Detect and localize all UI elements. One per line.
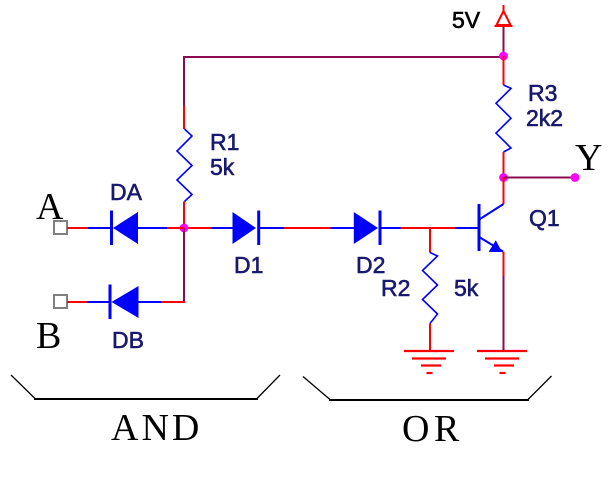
svg-text:2k2: 2k2 <box>526 105 563 131</box>
wire: 5V flag to rail node <box>503 27 505 56</box>
svg-text:5k: 5k <box>210 154 235 180</box>
svg-text:A: A <box>36 186 64 228</box>
wire: R3 top lead <box>503 56 505 85</box>
wire: B terminal red stub <box>67 301 87 303</box>
wire: A terminal red stub <box>67 227 88 229</box>
ground (emitter) <box>477 351 527 373</box>
transistor Q1 <box>479 204 504 252</box>
wire: output to Y <box>504 177 576 179</box>
svg-text:Y: Y <box>575 137 602 179</box>
svg-text:AND: AND <box>111 407 202 449</box>
wire: R2 bottom lead <box>429 324 431 352</box>
ground (R2) <box>404 351 454 373</box>
svg-text:OR: OR <box>402 408 464 450</box>
wire: R1 upper red lead <box>183 106 185 129</box>
wire: top rail horizontal (R1 top to 5V node) <box>184 57 504 106</box>
wire: collector lead <box>503 178 505 205</box>
node: output terminal Y <box>571 173 580 182</box>
resistor R3 <box>496 85 511 152</box>
svg-text:Q1: Q1 <box>529 205 560 231</box>
svg-text:D1: D1 <box>234 252 263 278</box>
wire: DA to AND node red <box>167 227 184 229</box>
node: 5V rail junction <box>499 52 508 61</box>
input terminal B <box>54 295 67 308</box>
wire: R3 bottom lead <box>503 152 505 177</box>
wire: R2 top lead <box>429 228 431 253</box>
wire: emitter lead red <box>503 252 505 277</box>
svg-text:5k: 5k <box>454 275 479 301</box>
resistor R1 <box>177 129 192 202</box>
svg-text:R2: R2 <box>381 275 410 301</box>
wire: DB to vertical branch red <box>161 301 185 303</box>
brace OR <box>303 376 552 400</box>
diode DA <box>88 211 167 246</box>
wire: base lead blue <box>455 227 478 229</box>
brace AND <box>11 375 280 399</box>
diode DB <box>87 285 161 320</box>
diode D2 <box>354 211 401 246</box>
wire: D1 to D2 red <box>284 227 331 229</box>
svg-text:R3: R3 <box>528 80 557 106</box>
svg-text:B: B <box>36 315 61 357</box>
wire: D2 anode lead blue <box>331 227 355 229</box>
diode D1 <box>211 211 284 246</box>
svg-text:DA: DA <box>110 179 143 205</box>
power 5V supply flag <box>495 5 513 26</box>
node: AND junction <box>180 224 189 233</box>
node: collector / output junction <box>499 173 508 182</box>
wire: D2 cathode to base (red, with R2 tap) <box>401 227 456 229</box>
wire: AND node to D1 red <box>184 227 211 229</box>
input terminal A <box>54 221 67 234</box>
svg-text:D2: D2 <box>356 252 385 278</box>
svg-text:R1: R1 <box>210 129 239 155</box>
wire: AND node down to DB branch (maroon) <box>183 228 185 302</box>
wire: R1 bottom lead <box>183 202 185 229</box>
svg-text:DB: DB <box>112 327 144 353</box>
resistor R2 <box>423 253 438 324</box>
wire: emitter to ground maroon <box>503 276 505 351</box>
svg-text:5V: 5V <box>452 7 481 33</box>
